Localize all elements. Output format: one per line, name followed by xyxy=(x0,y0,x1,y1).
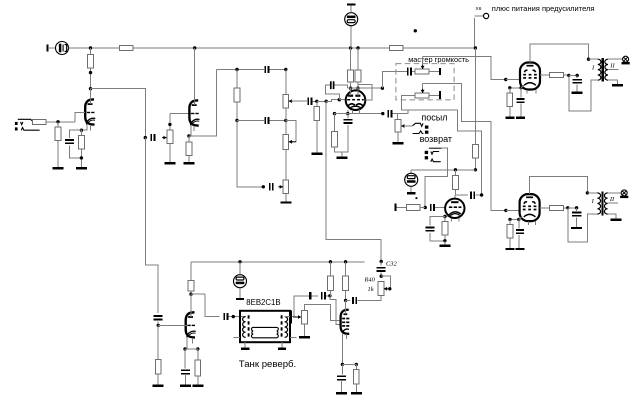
wire xyxy=(325,85,339,100)
ground xyxy=(351,392,362,394)
junction rail/R3 xyxy=(89,46,92,49)
wire tank stub left xyxy=(234,336,241,338)
wire V2 plate xyxy=(194,48,196,105)
wire V1 plate lead xyxy=(90,89,92,104)
wire supply row xyxy=(411,169,475,171)
wire xyxy=(355,384,357,393)
junction xyxy=(424,206,427,209)
wire xyxy=(608,58,623,60)
junction V8 plate xyxy=(189,293,192,296)
wire xyxy=(57,122,59,127)
junction xyxy=(474,168,477,171)
svg-text:8EB2C1B: 8EB2C1B xyxy=(246,298,280,307)
resistor R33 (V5 grid leak) xyxy=(407,205,420,211)
wire xyxy=(347,114,349,119)
wire rail xyxy=(133,47,389,49)
junction V3 grid xyxy=(338,98,341,101)
wire plate row xyxy=(347,87,382,89)
junction rail/X6 xyxy=(474,46,477,49)
wire xyxy=(540,74,550,76)
junction xyxy=(235,68,238,71)
resistor R23 (screen) xyxy=(550,72,564,77)
wire tone row mid xyxy=(237,120,264,122)
wiper arrow R40 xyxy=(384,287,389,291)
wire xyxy=(236,70,238,89)
wire xyxy=(423,83,454,85)
ground xyxy=(192,385,203,387)
resistor R24 (V13 cathode) xyxy=(507,224,513,238)
capacitor C9 (cathode bypass) xyxy=(343,120,352,123)
junction xyxy=(454,168,457,171)
wire xyxy=(397,132,399,143)
wire send feed xyxy=(348,113,383,115)
wire to X6 xyxy=(473,18,475,48)
ground xyxy=(505,117,514,119)
wire xyxy=(188,136,190,142)
wire V3 plate lead xyxy=(350,88,352,96)
wire xyxy=(410,170,412,173)
wire cathode to tone stack xyxy=(189,70,217,136)
wiper arrow treble pot xyxy=(289,99,294,103)
resistor R32 (V9 cathode) xyxy=(353,369,359,384)
wire V1 cathode xyxy=(81,124,86,130)
ground xyxy=(571,227,582,229)
resistor R34 (rail dropper 2) xyxy=(389,46,403,51)
resistor R19 (supply dropper) xyxy=(473,144,479,158)
wire secondary tap xyxy=(608,69,618,71)
wire xyxy=(357,82,359,88)
junction xyxy=(284,68,287,71)
ground xyxy=(336,157,347,159)
junction xyxy=(575,206,578,209)
wire rail xyxy=(69,47,120,49)
wiper arrow master a xyxy=(421,65,425,70)
wire xyxy=(157,374,159,385)
resistor R28 (V8 cathode) xyxy=(195,360,201,376)
junction V1 cathode xyxy=(80,129,83,132)
ground xyxy=(612,84,623,86)
junction xyxy=(587,58,590,61)
junction rail xyxy=(356,46,359,49)
wiper arrow of volume pot xyxy=(162,136,167,140)
transformer T2 secondary xyxy=(604,193,607,214)
svg-text:II: II xyxy=(609,63,615,70)
triode V1 xyxy=(85,98,95,125)
wire to master volume xyxy=(382,71,407,88)
junction V5 cathode xyxy=(443,215,446,218)
wire xyxy=(185,348,198,350)
wire xyxy=(335,85,348,88)
svg-text:R40: R40 xyxy=(364,277,376,284)
wire V8 cathode xyxy=(186,337,188,349)
wire wiper up xyxy=(422,56,424,64)
potentiometer R16 (master volume a) xyxy=(415,69,429,74)
wire xyxy=(341,152,343,157)
junction xyxy=(346,112,349,115)
junction xyxy=(328,294,331,297)
wire xyxy=(569,74,577,76)
capacitor C10 xyxy=(408,67,411,75)
wire xyxy=(285,121,287,135)
connector X6 xyxy=(484,13,489,18)
wire rail xyxy=(49,47,55,49)
wire xyxy=(397,207,407,209)
potentiometer R9 (treble) xyxy=(283,95,289,109)
wire xyxy=(435,207,445,209)
wire reverb supply row xyxy=(191,261,365,263)
wire xyxy=(270,120,286,122)
dual triode V3/V4 xyxy=(346,90,366,110)
wire xyxy=(518,235,520,248)
junction xyxy=(586,191,589,194)
ground xyxy=(180,385,191,387)
triode V8 (reverb driver) xyxy=(186,310,196,337)
jack X3 (send) xyxy=(413,123,429,134)
wire xyxy=(587,192,597,194)
wire xyxy=(339,99,346,101)
capacitor C18 (screen filter) xyxy=(572,213,582,216)
wire xyxy=(341,381,343,393)
wire xyxy=(169,143,171,163)
wire V5 plate xyxy=(454,195,456,199)
junction xyxy=(576,74,579,77)
wire V8 plate lead xyxy=(190,294,192,311)
junction xyxy=(566,206,569,209)
wire xyxy=(346,299,351,301)
wire xyxy=(345,262,347,276)
junction xyxy=(519,86,522,89)
resistor R26 (V8 plate load) xyxy=(188,280,194,291)
wire bass feed xyxy=(237,121,263,187)
wire xyxy=(345,290,347,300)
wire to V1 grid xyxy=(75,113,85,122)
ground xyxy=(515,248,524,250)
junction xyxy=(517,218,520,221)
ground xyxy=(516,117,525,119)
wire xyxy=(563,74,568,76)
potentiometer R18 (send level) xyxy=(395,119,401,132)
heater pin xyxy=(346,334,348,339)
junction xyxy=(284,119,287,122)
svg-text:возврат: возврат xyxy=(420,134,452,144)
capacitor C17 (cathode bypass) xyxy=(516,230,524,233)
wiper arrow send pot xyxy=(401,124,406,128)
wire xyxy=(430,217,445,226)
capacitor C11 (send) xyxy=(388,110,391,117)
wire treble wiper to C6 xyxy=(292,100,307,102)
heater pin xyxy=(535,221,537,225)
capacitor C22 xyxy=(322,292,325,300)
wire xyxy=(57,140,59,167)
ground xyxy=(336,392,347,394)
wire to R40 xyxy=(357,296,381,301)
transformer T2 core xyxy=(601,192,603,216)
wire xyxy=(326,295,330,297)
terminal X1 (power input) xyxy=(46,44,48,51)
resistor R12 (V3 grid leak) xyxy=(314,106,320,120)
junction xyxy=(238,260,241,263)
wire xyxy=(410,186,412,192)
input jack X2 xyxy=(15,119,40,130)
ground xyxy=(299,336,310,338)
wire to send jack xyxy=(404,125,412,127)
capacitor C4 (treble) xyxy=(265,66,268,73)
dashed box master volume xyxy=(396,64,454,100)
pentode V12 (output) xyxy=(520,63,540,90)
wire xyxy=(313,100,317,102)
tube lamp V11 (rail indicator) xyxy=(345,13,358,26)
heater pin xyxy=(358,110,360,114)
wire xyxy=(190,262,192,281)
wire xyxy=(429,95,439,97)
junction xyxy=(329,260,332,263)
wire xyxy=(576,75,578,78)
wire xyxy=(281,342,283,348)
junction V1 plate node xyxy=(89,87,92,90)
wire xyxy=(474,158,476,170)
wire R40 bracket xyxy=(381,276,390,289)
junction xyxy=(508,218,511,221)
transformer T1 primary xyxy=(598,59,601,80)
junction V13 grid xyxy=(504,209,507,212)
wire xyxy=(292,141,297,143)
wire master b wiper to V13 grid xyxy=(454,84,506,211)
wiper arrow mid pot xyxy=(289,140,294,144)
wire xyxy=(412,70,415,72)
wiper arrow master b xyxy=(421,89,425,94)
wire xyxy=(270,69,286,71)
ground xyxy=(164,162,175,164)
resistor R2 (rail dropper) xyxy=(119,46,133,51)
wire xyxy=(350,48,352,70)
wire xyxy=(429,147,442,149)
wire send bus xyxy=(408,110,482,195)
wire xyxy=(350,5,352,12)
potentiometer R40 xyxy=(378,282,384,296)
resistor R27 (V8 grid leak) xyxy=(155,360,161,375)
wire volume to V2 grid xyxy=(170,113,191,115)
junction xyxy=(508,86,511,89)
ground xyxy=(280,201,291,203)
wire xyxy=(190,291,192,294)
wire to V8 grid xyxy=(158,324,187,326)
triode V5 (recovery) xyxy=(445,199,464,218)
wire xyxy=(454,189,456,195)
wire secondary tap xyxy=(608,202,618,204)
wire xyxy=(509,219,511,224)
junction xyxy=(89,71,92,74)
junction V2 cathode xyxy=(187,134,190,137)
junction V9 plate xyxy=(344,299,347,302)
junction xyxy=(355,363,358,366)
junction xyxy=(315,100,318,103)
svg-text:C32: C32 xyxy=(386,260,397,267)
wire B+ to OT2 primary xyxy=(568,208,598,242)
wire xyxy=(355,364,357,369)
wire V12 plate to OT1 xyxy=(530,44,589,62)
wire tank output xyxy=(285,296,309,317)
wire xyxy=(576,208,578,211)
wire xyxy=(285,70,287,95)
junction V3 plate xyxy=(349,87,352,90)
wire xyxy=(80,130,82,135)
wire xyxy=(285,108,287,121)
tank input coil xyxy=(243,317,246,338)
wire xyxy=(510,87,521,89)
wire xyxy=(357,48,359,70)
wire xyxy=(444,217,446,222)
capacitor C24 (cathode bypass) xyxy=(337,376,346,379)
wire xyxy=(70,145,82,158)
junction xyxy=(235,119,238,122)
ground xyxy=(183,162,194,164)
wire return jack to V5 grid xyxy=(425,148,447,207)
capacitor C2 (coupling) xyxy=(151,134,154,141)
wire xyxy=(521,85,524,88)
wire xyxy=(509,107,511,117)
ground xyxy=(53,167,64,169)
junction grid/R4 xyxy=(56,120,59,123)
wire xyxy=(520,104,522,117)
ground xyxy=(311,153,322,155)
capacitor C6 (coupling to V3) xyxy=(308,98,311,105)
svg-text:Танк реверб.: Танк реверб. xyxy=(239,359,296,370)
junction xyxy=(262,185,265,188)
heater pin xyxy=(191,338,193,343)
wire V3 cathode xyxy=(347,110,349,114)
wire xyxy=(540,207,550,209)
wire xyxy=(184,349,186,369)
capacitor C32 xyxy=(377,268,386,271)
wire xyxy=(510,218,519,220)
wire xyxy=(380,273,382,277)
wire to V3 grid xyxy=(326,100,339,102)
capacitor C21 (tank coupling) xyxy=(224,313,227,320)
ground xyxy=(241,347,250,349)
potentiometer R29 (tank level) xyxy=(302,310,308,324)
wire xyxy=(422,84,424,89)
wire xyxy=(335,113,348,115)
wire rail xyxy=(403,47,475,49)
tube lamp V10 (series indicator) xyxy=(56,42,69,55)
heater pin xyxy=(352,110,354,113)
wire xyxy=(46,121,75,123)
wire xyxy=(445,215,448,217)
capacitor C15 (cathode bypass) xyxy=(517,99,525,102)
tank spring xyxy=(251,327,278,337)
resistor R15 (cathode) xyxy=(332,131,338,147)
resistor R20 (V5 plate load) xyxy=(453,175,459,189)
wire V4 grid loop xyxy=(358,85,372,101)
capacitor C1 (V1 cathode bypass) xyxy=(65,140,74,143)
wire xyxy=(608,80,618,84)
junction V4 plate xyxy=(356,87,359,90)
wire xyxy=(157,325,159,359)
wire xyxy=(334,114,336,132)
wire xyxy=(80,149,82,168)
output connector X7 xyxy=(620,190,628,197)
wire xyxy=(608,214,616,219)
wire xyxy=(157,322,159,326)
wire xyxy=(169,114,171,130)
resistor R30 xyxy=(328,276,334,290)
wire xyxy=(576,84,578,92)
terminal xyxy=(394,203,396,210)
wire pot to V9 grid xyxy=(305,305,341,321)
wire tone row top xyxy=(217,69,265,71)
svg-text:посыл: посыл xyxy=(421,112,447,122)
junction xyxy=(443,239,446,242)
tank screen dashed xyxy=(281,315,283,338)
resistor R4 (V1 grid leak) xyxy=(55,127,61,140)
capacitor C23 xyxy=(353,297,356,304)
wire xyxy=(329,290,331,295)
wire to X6 xyxy=(474,15,483,17)
ground xyxy=(572,92,583,94)
heater pin xyxy=(193,126,195,131)
jack X4 (return) xyxy=(425,151,441,162)
wire xyxy=(70,130,82,138)
wire xyxy=(396,114,398,120)
wire xyxy=(455,194,467,196)
wire xyxy=(317,100,326,102)
wire xyxy=(188,156,190,163)
wire xyxy=(509,88,511,93)
wire xyxy=(316,101,318,106)
resistor R7 (V2 cathode) xyxy=(186,142,192,156)
junction V12 grid xyxy=(504,78,507,81)
ground xyxy=(278,347,286,349)
capacitor C7 (bass) xyxy=(270,183,273,190)
wire xyxy=(397,110,408,114)
pentode V13 (output) xyxy=(520,194,540,221)
resistor R22 (V12 cathode) xyxy=(507,93,513,107)
wire xyxy=(350,82,352,88)
junction send xyxy=(381,112,384,115)
wire xyxy=(568,207,577,209)
wire xyxy=(475,194,481,196)
resistor R21 (V5 cathode) xyxy=(442,222,448,236)
wire xyxy=(191,293,205,295)
terminal xyxy=(236,298,244,300)
terminal xyxy=(290,311,292,324)
wire xyxy=(285,193,287,202)
resistor R8 (tone) xyxy=(234,88,240,102)
wire xyxy=(402,96,416,110)
ground xyxy=(76,167,87,169)
capacitor C16 (screen filter) xyxy=(572,80,582,83)
ground xyxy=(506,248,515,250)
wire xyxy=(506,209,520,211)
terminal xyxy=(309,292,311,299)
wire B+ to OT1 primary xyxy=(569,75,598,110)
wire xyxy=(90,48,92,54)
svg-text:X6: X6 xyxy=(476,6,482,12)
wire xyxy=(197,349,199,360)
wire xyxy=(608,192,622,194)
wire xyxy=(304,324,306,336)
ground xyxy=(610,218,621,220)
junction xyxy=(80,156,83,159)
wire mid pot bracket xyxy=(286,121,296,142)
junction xyxy=(341,363,344,366)
wire xyxy=(518,219,520,228)
output connector X5 xyxy=(622,56,630,63)
asterisk mark xyxy=(416,197,418,199)
wire xyxy=(197,376,199,385)
wire xyxy=(239,288,241,298)
wire xyxy=(330,296,341,325)
